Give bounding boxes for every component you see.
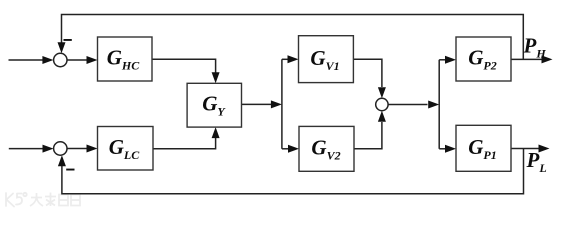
wire G_V2 output to summing junction 3	[354, 122, 382, 149]
summing junction 1	[54, 53, 67, 66]
wire top feedback from P_H tap to summing junction 1	[62, 15, 524, 60]
minus sign at summing junction 1	[64, 39, 72, 41]
wire G_V1 output to summing junction 3	[353, 59, 382, 87]
arrowhead into summing junction 3 top (down)	[378, 87, 386, 98]
block box G_V1	[299, 36, 354, 83]
arrowhead input 1 (right)	[42, 56, 53, 64]
wire summing junction 1 to G_HC	[67, 59, 87, 61]
wire branch to G_P1	[439, 148, 445, 150]
wire summing junction 2 to G_LC	[67, 148, 87, 150]
watermark logo	[6, 193, 27, 207]
wire P_L output	[511, 148, 539, 150]
wire input 1	[9, 59, 43, 61]
arrowhead into summing junction 3 bottom (up)	[378, 111, 386, 122]
wire bottom feedback from P_L tap to summing junction 2	[62, 149, 524, 194]
watermark characters	[30, 193, 80, 207]
arrowhead into summing junction 2 (feedback, up)	[58, 155, 66, 166]
arrowhead into G_P1 (right)	[445, 145, 456, 153]
block box G_P2	[456, 37, 511, 81]
block box G_Y	[187, 83, 241, 127]
arrowhead into G_V2 (right)	[288, 145, 299, 153]
arrowhead into G_Y bottom (up)	[212, 127, 220, 138]
wire G_LC output to G_Y bottom	[153, 138, 216, 149]
summing junction 2	[54, 142, 67, 155]
arrowhead P_L output (right)	[539, 145, 550, 153]
arrowhead into G_P2 (right)	[445, 56, 456, 64]
arrowhead into G_Y top (down)	[212, 72, 220, 83]
arrowhead into G_HC (right)	[87, 56, 98, 64]
wire branch to G_P2	[439, 59, 445, 61]
wire branch vertical P1/P2	[438, 60, 440, 149]
wire G_Y output to branch node	[242, 103, 272, 105]
wire P_H output	[511, 58, 542, 60]
arrowhead into branch node 2 (right)	[428, 101, 439, 109]
wire input 2	[9, 148, 43, 150]
arrowhead into summing junction 1 (feedback, down)	[58, 42, 66, 53]
block box G_HC	[98, 37, 153, 81]
arrowhead into G_V1 (right)	[288, 55, 299, 63]
wire branch to G_V2	[282, 148, 289, 150]
block box G_V2	[299, 126, 354, 171]
arrowhead G_Y output into branch node (right)	[271, 100, 282, 108]
arrowhead input 2 (right)	[43, 145, 54, 153]
wire branch vertical V1/V2	[281, 59, 283, 149]
wire G_HC output to G_Y top	[152, 59, 216, 72]
minus sign at summing junction 2	[66, 169, 74, 171]
wire branch to G_V1	[282, 58, 288, 60]
summing junction 3	[376, 98, 388, 110]
block box G_LC	[98, 127, 154, 171]
arrowhead P_H output (right)	[542, 55, 553, 63]
wire summing junction 3 to branch node 2	[388, 104, 427, 106]
arrowhead into G_LC (right)	[87, 145, 98, 153]
block box G_P1	[456, 125, 511, 171]
